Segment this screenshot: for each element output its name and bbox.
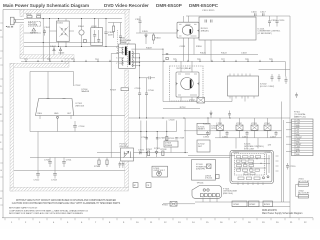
svg-text:R7112: R7112 (180, 107, 187, 109)
page frame bottom ruler (2, 218, 313, 224)
jack J7001 (298, 179, 310, 187)
capacitor C1120 (276, 16, 286, 27)
svg-text:C1118: C1118 (241, 52, 247, 54)
wire top right bus (186, 15, 290, 17)
reset IC box IC7201 (197, 123, 218, 134)
wire jacks link (296, 185, 299, 197)
svg-text:D1103: D1103 (59, 53, 66, 55)
svg-text:P.CONT: P.CONT (296, 137, 302, 139)
svg-text:C7108: C7108 (159, 138, 166, 140)
component row rail y138 (215, 137, 282, 139)
capacitor C1108 (119, 23, 122, 45)
inductor L7102 (189, 97, 205, 103)
svg-text:MAIN P.C.B.): MAIN P.C.B.) (294, 116, 306, 119)
svg-text:R7109: R7109 (110, 90, 117, 92)
wire lower bus b (24, 46, 122, 48)
isolation hatch lower rect top band (10, 63, 69, 67)
capacitor C7105 (135, 88, 142, 118)
diode block D7001 (152, 166, 168, 177)
capacitor C7230 edge (295, 93, 298, 99)
capacitor C1117 top (260, 12, 266, 17)
box D7103 label (164, 141, 178, 147)
wire IC7101 loop (30, 72, 74, 132)
wire right rail y69 (259, 69, 291, 71)
capacitor row C7205 (226, 131, 229, 136)
svg-text:C1111: C1111 (135, 19, 141, 21)
fuse F1101 (26, 14, 32, 18)
svg-text:SAFETY: SAFETY (30, 32, 38, 35)
wire relay feed left (184, 16, 195, 61)
wire y131 rail (30, 131, 177, 133)
page frame right edge (289, 16, 291, 218)
filter box L1103 (91, 19, 103, 46)
svg-text:Main Power Supply Schematic Di: Main Power Supply Schematic Diagram (262, 212, 303, 215)
wire input mid bus (24, 32, 41, 34)
capacitor C7220 (286, 163, 296, 170)
capacitor C7113 (51, 171, 58, 182)
svg-text:REG: REG (38, 113, 43, 115)
wires IC1101 drops (205, 40, 211, 61)
wire bottom rail y170 (14, 170, 125, 172)
capacitor C1111 (135, 16, 142, 27)
isolation hatch upper rect left band (20, 10, 23, 17)
svg-text:(REG 5V): (REG 5V) (76, 106, 85, 108)
AC inlet plug (10, 17, 24, 25)
isolation hatch upper rect bottom band (20, 55, 74, 59)
svg-text:C1113 R1115: C1113 R1115 (202, 10, 215, 12)
isolation hatch upper rect top band (20, 10, 129, 14)
isolation hatch link band (65, 59, 69, 64)
choke box L7203 (251, 125, 258, 130)
capacitor row C7207 (275, 131, 278, 136)
diode D1103 (59, 47, 66, 55)
wire bottom bus y202 (195, 201, 290, 203)
svg-text:D1101: D1101 (57, 23, 64, 25)
label IC7001 block (244, 144, 272, 151)
dashed box relay RL7101 area (170, 66, 204, 101)
capacitor row C7206 (246, 131, 249, 136)
svg-text:(IC SE135DNP): (IC SE135DNP) (258, 33, 272, 35)
capacitor C7115 below opto (119, 162, 125, 169)
svg-text:C7205: C7205 (222, 137, 229, 139)
svg-text:L1151: L1151 (36, 14, 42, 16)
capacitor C7112 (34, 171, 41, 182)
svg-text:C1116: C1116 (251, 12, 257, 14)
junction dots mid cluster (140, 131, 185, 153)
wire bottom bus left extension (163, 203, 195, 205)
label row micro texts (203, 123, 277, 139)
wire secondary rail y101 (163, 101, 232, 103)
relay RL1101 (177, 22, 209, 38)
wire y108 segment (163, 107, 200, 109)
svg-text:R1116: R1116 (196, 46, 202, 48)
surge absorber dashed box RP1102 (28, 22, 40, 27)
svg-text:R7108: R7108 (161, 149, 168, 151)
svg-text:L7204: L7204 (264, 123, 270, 125)
page frame top edge (3, 9, 130, 11)
capacitor row C7204 (206, 131, 209, 136)
wire cross drops dense rows (208, 118, 268, 149)
wire filter verticals (43, 19, 49, 62)
junction dots input stage (43, 18, 107, 47)
capacitor C7111 (62, 158, 72, 168)
svg-text:C7110: C7110 (44, 160, 51, 162)
label T1101 (120, 38, 132, 45)
wire input top bus (24, 18, 122, 20)
resistor network left of opto (94, 158, 108, 168)
svg-text:(DC-DC CONV): (DC-DC CONV) (260, 86, 274, 88)
jack J7002 (298, 190, 310, 198)
connector P7001 (192, 186, 238, 199)
svg-text:CAUTION FOR CONTINUED PROTECTI: CAUTION FOR CONTINUED PROTECTION REPLACE… (12, 202, 121, 205)
svg-text:C7107: C7107 (141, 137, 148, 139)
box IC7202 (197, 140, 210, 152)
svg-text:C7204: C7204 (203, 137, 210, 139)
jumper box M7002 (146, 183, 151, 188)
svg-text:R7107: R7107 (146, 149, 153, 151)
svg-text:B7003: B7003 (264, 204, 271, 206)
wire primary return (110, 54, 112, 158)
diode D7201 vertical (210, 111, 212, 119)
svg-text:R1104: R1104 (78, 26, 85, 28)
svg-text:RESET: RESET (198, 129, 205, 131)
driver box Q7003 (192, 160, 220, 181)
svg-text:(RELAY): (RELAY) (201, 29, 209, 32)
svg-text:IMPORTANT FOR SAFETY. REPLACE: IMPORTANT FOR SAFETY. REPLACE ONLY WITH … (9, 212, 84, 215)
wire feed lines into connector (282, 102, 292, 203)
component row rail y130 (184, 130, 282, 132)
opto coupler PC7101 (120, 144, 134, 161)
wire lower bus a (24, 42, 103, 44)
resistor R7113 (166, 137, 175, 141)
svg-text:C7109: C7109 (178, 138, 185, 140)
label AC IN (6, 26, 7, 27)
connector P7101 (292, 112, 314, 156)
isolation hatch lower rect bottom band (10, 187, 129, 191)
wire transformer secondary out 3 (162, 49, 164, 101)
wire cold rail left (30, 157, 86, 159)
svg-text:R1121: R1121 (200, 52, 207, 54)
svg-text:L7201: L7201 (217, 123, 223, 125)
wire AC bus row y61 (21, 59, 285, 62)
svg-text:(PHOTO): (PHOTO) (120, 146, 129, 148)
wire trapezoid out rail (74, 115, 125, 117)
wires fan connector drops (203, 198, 217, 203)
svg-text:B7002: B7002 (250, 204, 257, 206)
svg-text:DTC114: DTC114 (205, 177, 213, 179)
jumper box M7001 (133, 183, 138, 188)
svg-text:(REF 30-4): (REF 30-4) (223, 193, 233, 195)
wire cold rail y157 (86, 157, 230, 159)
svg-text:L7103: L7103 (169, 120, 175, 122)
svg-text:S5566R: S5566R (165, 145, 173, 147)
relay RL7101 (176, 61, 199, 101)
svg-text:Q7002: Q7002 (265, 152, 272, 154)
svg-text:WITHOUT ARE IN HOT CIRCUIT GRO: WITHOUT ARE IN HOT CIRCUIT GROUND BASED … (16, 199, 116, 202)
wire aux row y54 (162, 52, 258, 54)
svg-text:DMR-E510P: DMR-E510P (156, 3, 182, 8)
inductor L1151 (36, 14, 42, 18)
svg-text:C7207: C7207 (270, 137, 277, 139)
svg-text:GND: GND (54, 113, 59, 115)
resistor R1108 (113, 23, 115, 39)
resistor R7107 (146, 149, 153, 155)
svg-text:R1110: R1110 (155, 38, 161, 40)
capacitor C7107 (141, 137, 148, 139)
svg-text:MA4068: MA4068 (82, 90, 90, 93)
svg-text:C7104: C7104 (79, 126, 86, 128)
choke box L7204 (264, 125, 271, 130)
transformer T1101 (116, 44, 135, 68)
svg-text:L1103: L1103 (91, 26, 97, 28)
svg-text:C7220: C7220 (290, 166, 297, 168)
svg-text:(ON/OFF): (ON/OFF) (196, 168, 205, 170)
terminal plate B7001 (232, 201, 247, 207)
capacitor C7023 (285, 77, 288, 85)
capacitor C1102 (43, 27, 51, 36)
svg-text:AC OUTLET: AC OUTLET (298, 192, 310, 195)
bridge rectifier D1101 (50, 19, 75, 47)
IC box IC7002 (228, 74, 275, 99)
svg-text:C7105: C7105 (135, 88, 142, 90)
wire startup row above transformer (108, 22, 122, 24)
wire bottom bus y206 (232, 206, 290, 208)
svg-text:L7202: L7202 (236, 123, 242, 125)
svg-text:D1105: D1105 (142, 31, 149, 33)
diode D1105 (142, 31, 149, 44)
svg-text:R1122: R1122 (221, 52, 228, 54)
wire transformer secondary out 1 (135, 47, 163, 49)
caution note centered (12, 199, 121, 205)
wire main secondary rail y118 (129, 117, 290, 118)
svg-text:IMPORTANT SAFETY NOTICE :: IMPORTANT SAFETY NOTICE : (9, 207, 39, 210)
capacitor C7106 (145, 78, 155, 118)
svg-text:Main Power Supply Schematic Di: Main Power Supply Schematic Diagram (3, 3, 89, 8)
svg-text:C7106: C7106 (148, 90, 155, 92)
isolation hatch lower rect left band (10, 63, 14, 191)
warning triangle (30, 28, 38, 35)
wire secondary bus vertical (135, 54, 140, 91)
secondary filter verticals (141, 118, 185, 158)
title block bottom right (262, 210, 303, 215)
fuse box F7001 bottom (162, 202, 177, 207)
page frame left ruler (0, 10, 3, 218)
svg-text:DVD Video Recorder: DVD Video Recorder (104, 3, 149, 8)
capacitor C7021 (271, 74, 274, 82)
wire opto right (134, 152, 189, 154)
isolation hatch upper rect right band (125, 10, 129, 45)
wire startup vertical (139, 27, 141, 33)
svg-text:Q7001: Q7001 (233, 152, 240, 154)
svg-text:B7001: B7001 (234, 204, 241, 206)
svg-text:COMPONENTS IDENTIFIED WITH THE: COMPONENTS IDENTIFIED WITH THE MARK △ HA… (9, 209, 89, 212)
wire caps feed (285, 61, 287, 76)
resistor R1110 (152, 33, 161, 44)
capacitor C1119 (268, 16, 277, 27)
diode D7105 (154, 148, 161, 157)
wire transformer primary feed (111, 53, 119, 55)
svg-text:400V: 400V (108, 34, 113, 36)
svg-text:TP7001: TP7001 (197, 183, 205, 185)
startup resistor crossing isolation (110, 87, 129, 92)
svg-text:C7112: C7112 (34, 180, 41, 182)
capacitor C7022 (278, 74, 281, 82)
snubber box IC1101 (199, 17, 281, 40)
wire D7103 drop (170, 147, 172, 153)
svg-text:RESET: RESET (296, 144, 301, 146)
varistor R1104 (78, 19, 86, 47)
capacitor C7108 (156, 138, 166, 140)
svg-text:C7206: C7206 (242, 137, 249, 139)
label relay pins (180, 46, 203, 48)
svg-text:R1109: R1109 (146, 47, 153, 49)
isolation hatch center vertical band (125, 70, 129, 187)
svg-text:C1102: C1102 (44, 27, 51, 29)
svg-text:D1102: D1102 (50, 46, 57, 48)
caution note left (9, 207, 89, 215)
wire IC7002 drops (232, 96, 245, 102)
svg-text:C1120: C1120 (279, 20, 286, 22)
svg-text:AC IN: AC IN (7, 26, 13, 29)
terminal plate B7003 (263, 201, 273, 207)
terminal plate B7002 (249, 201, 260, 207)
hybrid IC block IC7001 (230, 150, 279, 185)
svg-text:C7102: C7102 (75, 85, 82, 87)
label micro mid (82, 89, 90, 93)
svg-text:C7121: C7121 (138, 149, 145, 151)
svg-text:DMR-E510P/C: DMR-E510P/C (262, 210, 278, 212)
svg-text:F7001: F7001 (162, 204, 169, 206)
svg-text:R7203: R7203 (203, 124, 210, 126)
svg-text:C7111: C7111 (66, 160, 72, 162)
wire opto left (97, 152, 121, 154)
capacitor C1122 on aux row (166, 53, 168, 59)
choke box L7201 (217, 125, 224, 130)
svg-text:C7113: C7113 (51, 180, 58, 182)
dashed separator line (116, 30, 118, 54)
capacitor C1106 (104, 19, 114, 47)
svg-text:M7: M7 (134, 185, 136, 187)
capacitor C7110 (44, 158, 52, 168)
diode D1102 (50, 46, 57, 55)
capacitor C1116 top (251, 12, 257, 17)
capacitor C7210 vertical (228, 111, 231, 119)
svg-text:DRX9EA: DRX9EA (29, 24, 38, 27)
choke box L7202 (236, 125, 243, 130)
svg-text:AC OUTLET: AC OUTLET (298, 180, 310, 183)
regulator IC7101 (36, 99, 85, 132)
svg-text:SYS CONT: SYS CONT (244, 148, 255, 150)
wire rail links left (38, 132, 55, 171)
resistor R7108 (161, 149, 168, 155)
wire snubber y77.8 (139, 76, 155, 79)
svg-text:F1101: F1101 (26, 14, 32, 16)
tick marks on AC bus row (26, 60, 272, 62)
svg-text:DMR-E510PC: DMR-E510PC (189, 3, 219, 8)
capacitor C7104 (73, 121, 85, 132)
svg-text:C1115: C1115 (180, 46, 186, 48)
svg-text:C1117: C1117 (260, 12, 266, 14)
svg-text:RL7101 (RELAY): RL7101 (RELAY) (177, 67, 193, 70)
wire y155 link (188, 155, 235, 157)
svg-text:L7102: L7102 (189, 99, 195, 101)
capacitor C7109 (175, 138, 185, 140)
startup circuit wire (136, 32, 177, 34)
resistor R7106 (138, 149, 145, 154)
svg-text:L7203: L7203 (251, 123, 257, 125)
svg-text:R7105: R7105 (94, 166, 101, 168)
svg-text:R7113: R7113 (169, 138, 176, 140)
